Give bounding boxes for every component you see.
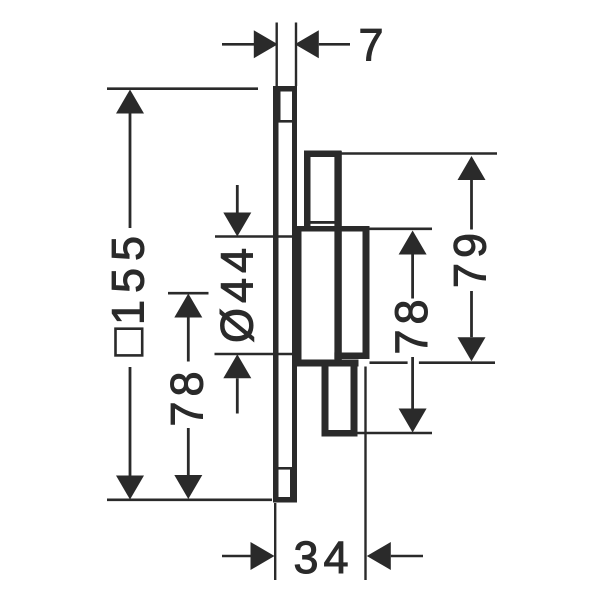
dim79 top extension line xyxy=(342,152,498,155)
dim155 top reference line xyxy=(107,87,258,90)
dim155 line upper xyxy=(129,114,132,229)
body left edge behind plate xyxy=(297,226,302,366)
dim155 line lower xyxy=(129,367,132,476)
lower block left edge V4 xyxy=(322,366,329,430)
dim44 top arrow xyxy=(223,213,251,237)
plate inner line top vertical xyxy=(278,92,281,123)
svg-text:Ø44: Ø44 xyxy=(212,243,263,343)
dim44 bottom extension line xyxy=(215,353,297,356)
plate inner line top xyxy=(279,120,293,123)
dim7 right tail xyxy=(319,43,350,46)
dim44 bottom arrow xyxy=(223,354,251,378)
sleeve inner line H2 xyxy=(311,221,335,224)
dim78R bottom arrow xyxy=(399,409,427,433)
plate inner vertical bottom xyxy=(290,467,294,502)
dim78L line upper xyxy=(187,318,190,362)
dim34 right arrow xyxy=(367,542,391,570)
svg-text:79: 79 xyxy=(445,228,496,288)
svg-text:155: 155 xyxy=(103,229,154,325)
dim155 square symbol xyxy=(116,329,143,356)
dim44 top leader xyxy=(236,185,239,214)
dim7 right extension line xyxy=(295,23,297,87)
dim7 left extension line xyxy=(276,23,278,87)
dim78R top extension line xyxy=(370,228,433,231)
dim79 bottom arrow xyxy=(458,337,486,361)
dim78L top arrow xyxy=(174,294,202,318)
svg-text:78: 78 xyxy=(162,366,213,426)
dim7 left tail xyxy=(222,43,255,46)
svg-text:34: 34 xyxy=(294,532,354,583)
plate left bar xyxy=(273,86,279,502)
body bottom edge H4a xyxy=(334,353,369,360)
dim34 right tail xyxy=(391,555,423,558)
dim78R bottom extension line xyxy=(358,432,433,435)
dim34 left arrow xyxy=(251,542,275,570)
body top edge H3 xyxy=(297,226,370,232)
dim79 bottom extension line seg2 xyxy=(419,361,495,364)
sleeve right edge V2 xyxy=(334,151,341,362)
dim44 bottom leader xyxy=(236,378,239,413)
svg-text:78: 78 xyxy=(386,294,437,354)
plate bottom cap xyxy=(273,497,297,503)
plate top cap xyxy=(273,86,297,92)
lower block bottom edge H5 xyxy=(322,430,358,437)
body right edge V3 xyxy=(363,226,370,359)
dim34 right extension line xyxy=(364,367,366,581)
dim79 bottom extension line seg1 xyxy=(370,361,408,364)
dim78L bottom arrow xyxy=(174,475,202,499)
dim44 top extension line xyxy=(215,235,294,238)
dim7 left arrow xyxy=(254,30,278,58)
dim155 bottom arrow xyxy=(116,476,144,500)
step edge H4b xyxy=(297,360,359,367)
dim34 left extension line xyxy=(274,503,276,580)
dim155 bottom reference line xyxy=(107,498,272,501)
dim79 line lower xyxy=(470,291,473,337)
dim78R line upper xyxy=(411,255,414,299)
dim78L top tick xyxy=(168,292,209,295)
plate inner line bottom xyxy=(279,467,293,470)
sleeve body left edge V1 xyxy=(304,151,311,232)
dim155 top arrow xyxy=(116,90,144,114)
plate right bar xyxy=(292,86,297,502)
dim7 right arrow xyxy=(295,30,319,58)
dim79 top arrow xyxy=(458,156,486,180)
sleeve top edge H1 xyxy=(304,151,342,158)
dim79 line upper xyxy=(470,180,473,230)
dim78L line lower xyxy=(187,428,190,476)
svg-text:7: 7 xyxy=(359,20,384,71)
dim34 left tail xyxy=(222,555,252,558)
lower block right edge V5 xyxy=(351,366,358,430)
dim78R top arrow xyxy=(399,231,427,255)
dim78R line lower xyxy=(411,357,414,409)
